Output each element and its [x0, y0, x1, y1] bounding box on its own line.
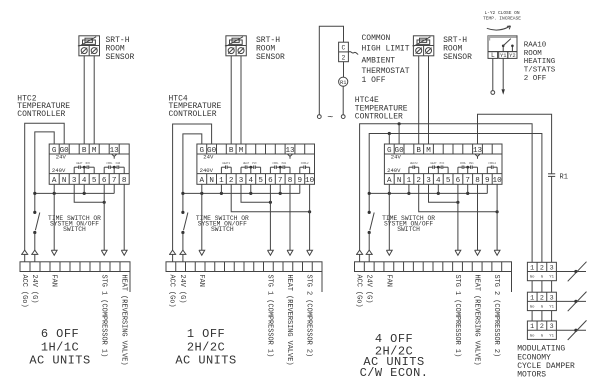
wire G0 to ACC terminal (HTC4) [173, 124, 212, 250]
svg-text:COMMON: COMMON [362, 34, 391, 43]
svg-text:STG 2 (COMPRESSOR 2): STG 2 (COMPRESSOR 2) [305, 275, 313, 358]
wire G0 to ACC terminal (HTC2) [25, 123, 64, 250]
label HTC4E controller [355, 96, 408, 121]
svg-text:COOL: COOL [106, 162, 113, 165]
strip label STG 2 S2 [305, 275, 313, 358]
svg-text:10: 10 [305, 177, 315, 185]
label ambient thermostat [362, 34, 410, 85]
svg-text:Y1: Y1 [549, 276, 554, 280]
room sensor U4 (SRT-H) [225, 36, 246, 56]
svg-text:M: M [92, 147, 97, 155]
svg-text:4: 4 [436, 177, 441, 185]
svg-text:AC UNITS: AC UNITS [175, 353, 236, 367]
wire terminal 8 to HEAT (HTC4) [289, 184, 291, 250]
svg-text:SRT-H: SRT-H [443, 36, 467, 45]
svg-text:COOL: COOL [272, 162, 279, 165]
svg-text:SENSOR: SENSOR [443, 53, 472, 62]
svg-text:2: 2 [229, 177, 234, 185]
svg-text:T/STATS: T/STATS [524, 66, 556, 74]
svg-text:C/W ECON.: C/W ECON. [360, 366, 429, 380]
relay contacts HEAT PVC (HTC4E) [429, 162, 449, 174]
wire terminal 8 to HEAT (HTC2) [123, 184, 125, 250]
svg-text:1 OFF: 1 OFF [362, 76, 386, 85]
svg-text:3: 3 [550, 294, 554, 302]
leader to thermostat text [348, 52, 358, 55]
svg-text:PVC: PVC [440, 162, 445, 165]
svg-text:3: 3 [550, 265, 554, 273]
wire R1 contact to damper motors terminal 3 [551, 176, 553, 262]
svg-text:Y2: Y2 [509, 53, 515, 59]
switch contact L-Y1 (RAA10) [502, 39, 514, 52]
svg-text:Y1: Y1 [549, 334, 554, 338]
wires damper motor 2 to next [532, 311, 552, 321]
relay contacts COOL PH1 (HTC4) [270, 162, 290, 174]
relay contacts COOL FAN (HTC2) [104, 162, 124, 174]
svg-text:A: A [52, 177, 57, 185]
svg-text:8: 8 [475, 177, 480, 185]
svg-text:24V: 24V [56, 153, 67, 160]
arrow into strip (ACC S2) [169, 250, 176, 262]
caption 1 OFF 2H/2C AC UNITS [175, 327, 236, 367]
svg-text:HEAT2: HEAT2 [410, 162, 418, 165]
svg-text:CONTROLLER: CONTROLLER [17, 110, 65, 119]
svg-text:5: 5 [258, 177, 263, 185]
svg-text:1: 1 [219, 177, 224, 185]
wire Y1 with arrow [502, 58, 505, 94]
wire Y-drop from terminal 13 (HTC4E) [475, 154, 480, 158]
caption 6 OFF 1H/1C AC UNITS [29, 327, 90, 367]
node 240V common rail (HTC4E) [368, 192, 488, 195]
label 24V (HTC4E) [391, 153, 402, 160]
svg-text:6 OFF: 6 OFF [41, 327, 79, 341]
node 240V common rail (HTC2) [33, 192, 114, 195]
svg-text:HEAT: HEAT [76, 162, 83, 165]
wire terminal 2 to terminal 10 column (HTC4E) [419, 184, 499, 213]
arrow to strip (STG1 S1) [101, 250, 107, 255]
node 240V common rail (HTC4) [181, 192, 300, 195]
wire terminal 8 to HEAT (HTC4E) [477, 184, 479, 250]
wire Y-drop from terminal 13 (HTC4) [288, 154, 293, 158]
strip label ACC (Go) S3 [355, 275, 363, 308]
room sensor U4E (SRT-H) [412, 36, 433, 56]
svg-text:6: 6 [456, 177, 461, 185]
arrow to strip (FAN S3) [386, 250, 392, 255]
wire terminal 2 to terminal 10 column (HTC4) [231, 184, 311, 213]
wire terminal 7 to rail (HTC4E) [467, 184, 469, 193]
svg-text:1: 1 [530, 294, 534, 302]
svg-text:24V: 24V [203, 153, 214, 160]
svg-text:A: A [387, 177, 392, 185]
wire G to time switch (HTC4) [183, 134, 202, 213]
strip label HEAT S3 [473, 275, 481, 366]
svg-text:M: M [426, 147, 431, 155]
label SRT-H room sensor 2 [256, 36, 285, 62]
svg-text:AC UNITS: AC UNITS [29, 353, 90, 367]
svg-text:FAN: FAN [384, 275, 392, 287]
strip label STG 2 S3 [492, 275, 500, 358]
label 24V (HTC2) [56, 153, 67, 160]
relay contacts COOL PH1 (HTC4E) [458, 162, 478, 174]
strip label 24V (G) S3 [364, 275, 372, 304]
svg-text:3: 3 [72, 177, 77, 185]
svg-text:Go: Go [530, 276, 535, 280]
svg-text:A: A [200, 177, 205, 185]
relay contact R1 [548, 173, 568, 181]
terminal Y1 (RAA10) [499, 52, 508, 60]
svg-text:Go: Go [530, 334, 535, 338]
svg-text:M: M [239, 147, 244, 155]
wire A to FAN (HTC4E) [388, 184, 390, 250]
wire terminal 4 to rail (HTC4) [250, 184, 252, 193]
wire R1 coil to link terminal [342, 86, 344, 114]
svg-text:13: 13 [110, 147, 120, 155]
svg-text:N: N [62, 177, 67, 185]
svg-text:CONTROLLER: CONTROLLER [355, 113, 403, 122]
svg-text:5: 5 [446, 177, 451, 185]
wire link terminal to C [319, 26, 343, 115]
svg-text:ACC (Go): ACC (Go) [355, 275, 363, 308]
svg-text:PH1: PH1 [469, 162, 474, 165]
svg-text:Y1: Y1 [500, 53, 506, 59]
svg-text:THERMOSTAT: THERMOSTAT [362, 67, 410, 76]
svg-text:HEAT: HEAT [430, 162, 437, 165]
svg-text:2: 2 [540, 323, 544, 331]
wire terminal 6 to STG1 (HTC4) [269, 184, 271, 250]
relay contact COOL2 (HTC4) [300, 162, 310, 174]
svg-text:1H/1C: 1H/1C [41, 341, 79, 355]
svg-text:R1: R1 [340, 80, 346, 86]
strip label HEAT S2 [285, 275, 293, 366]
svg-text:FAN: FAN [197, 275, 205, 287]
arrow to strip (FAN S2) [199, 250, 205, 255]
svg-text:2 OFF: 2 OFF [524, 75, 547, 83]
svg-text:STG 1 (COMPRESSOR 1): STG 1 (COMPRESSOR 1) [99, 275, 107, 358]
damper motor 1 [527, 262, 586, 282]
time switch contact (HTC4) [181, 211, 188, 234]
svg-text:SWITCH: SWITCH [397, 226, 420, 233]
svg-text:COOL2: COOL2 [301, 162, 309, 165]
label time switch (HTC4) [196, 215, 249, 233]
label 240V (HTC2) [52, 167, 66, 174]
terminal strip S1 [20, 262, 130, 292]
svg-text:24V: 24V [391, 153, 402, 160]
svg-text:HIGH LIMIT: HIGH LIMIT [362, 45, 410, 54]
caption 4 OFF 2H/2C AC UNITS C/W ECON. [360, 332, 429, 380]
relay contacts HEAT RVC (HTC2) [74, 162, 94, 174]
arrow to strip (HEAT S2) [287, 250, 293, 255]
link mark [327, 113, 333, 124]
strip label 24V (G) S1 [30, 275, 38, 304]
svg-text:SRT-H: SRT-H [256, 36, 280, 45]
svg-text:HEAT: HEAT [243, 162, 250, 165]
svg-text:2: 2 [540, 294, 544, 302]
wire G to time switch (HTC2) [35, 132, 54, 213]
svg-text:MOTORS: MOTORS [517, 371, 546, 380]
svg-text:240V: 240V [200, 167, 214, 174]
terminal block C-2 (ambient thermostat) [339, 42, 349, 62]
label time switch (HTC4E) [382, 215, 435, 233]
arrow to strip (STG2 S3) [494, 250, 500, 255]
arrow to strip (STG1 S2) [268, 250, 274, 255]
svg-text:7: 7 [465, 177, 470, 185]
svg-text:7: 7 [112, 177, 117, 185]
wire C2 block to R1 coil [343, 62, 345, 77]
svg-text:L: L [491, 52, 495, 59]
link terminal right [341, 115, 345, 119]
svg-text:ROOM: ROOM [524, 50, 543, 58]
svg-text:HEAT (REVERSING VALVE): HEAT (REVERSING VALVE) [119, 275, 127, 366]
arrow to strip (HEAT S3) [475, 250, 481, 255]
controller HTC4 terminal box [197, 144, 315, 185]
wire terminal 4 to rail (HTC2) [83, 184, 85, 193]
svg-text:10: 10 [493, 177, 503, 185]
time switch contact (HTC4E) [368, 211, 375, 234]
svg-text:FAN: FAN [49, 275, 57, 287]
arrow into strip (24V S2) [179, 250, 186, 262]
wires sensor U2 to terminals B,M [84, 56, 94, 144]
label 24V (HTC4) [203, 153, 214, 160]
wire terminal 3 to terminal 6 column (HTC4) [241, 184, 272, 204]
svg-text:RVC: RVC [86, 162, 91, 165]
controller HTC4E terminal box [384, 144, 502, 185]
wire A to FAN (HTC2) [53, 184, 55, 250]
svg-text:4: 4 [82, 177, 87, 185]
damper motor 3 [527, 320, 586, 340]
svg-text:3: 3 [239, 177, 244, 185]
svg-text:SRT-H: SRT-H [106, 36, 130, 45]
svg-text:HEATING: HEATING [524, 58, 556, 66]
svg-text:FAN: FAN [116, 162, 121, 165]
relay contact HEAT2 (HTC4E) [409, 162, 419, 174]
wire terminal 3 to terminal 6 column (HTC4E) [429, 184, 460, 204]
wire switch to 24V terminal (HTC2) [34, 233, 36, 251]
svg-text:1: 1 [530, 323, 534, 331]
svg-text:B: B [229, 147, 234, 155]
svg-text:9: 9 [298, 177, 303, 185]
label SRT-H room sensor 3 [443, 36, 472, 62]
wire terminal 1 to rail (HTC4E) [408, 184, 410, 193]
label SRT-H room sensor 1 [106, 36, 135, 62]
label 240V (HTC4E) [387, 167, 401, 174]
svg-text:5: 5 [92, 177, 97, 185]
relay contact COOL2 (HTC4E) [487, 162, 497, 174]
thermostat RAA10 body [488, 36, 517, 52]
svg-text:1: 1 [407, 177, 412, 185]
wires sensor U4 to terminals B,M [231, 56, 241, 144]
svg-text:1: 1 [530, 265, 534, 273]
wire terminal 7 to rail (HTC4) [279, 184, 281, 193]
strip label FAN S2 [197, 275, 205, 287]
strip label STG 1 S2 [266, 275, 274, 358]
svg-text:COOL2: COOL2 [488, 162, 496, 165]
svg-text:STG 1 (COMPRESSOR 1): STG 1 (COMPRESSOR 1) [266, 275, 274, 358]
arrow to strip (STG2 S2) [307, 250, 313, 255]
svg-text:24V (G): 24V (G) [178, 275, 186, 304]
svg-text:STG 2 (COMPRESSOR 2): STG 2 (COMPRESSOR 2) [492, 275, 500, 358]
svg-text:SWITCH: SWITCH [63, 226, 86, 233]
arrow to strip (FAN S1) [51, 250, 57, 255]
svg-text:CYCLE DAMPER: CYCLE DAMPER [517, 362, 575, 371]
svg-text:TEMP. INCREASE: TEMP. INCREASE [483, 16, 521, 22]
svg-text:HEAT (REVERSING VALVE): HEAT (REVERSING VALVE) [473, 275, 481, 366]
label RAA10 room heating t/stats [524, 42, 556, 83]
svg-text:B: B [416, 147, 421, 155]
strip label 24V (G) S2 [178, 275, 186, 304]
terminal L (RAA10) [488, 52, 498, 60]
controller HTC2 terminal box [49, 144, 129, 185]
wire G0 rail to damper motors terminal 1 [360, 122, 532, 262]
link terminal left [317, 115, 321, 119]
svg-text:R1: R1 [560, 173, 568, 181]
svg-text:4: 4 [249, 177, 254, 185]
damper motor 2 [527, 292, 586, 312]
svg-text:240V: 240V [387, 167, 401, 174]
terminal strip S2 [166, 262, 322, 292]
svg-text:2: 2 [540, 265, 544, 273]
strip label FAN S1 [49, 275, 57, 287]
wires damper motor 1 to next [532, 281, 552, 293]
svg-text:24V (G): 24V (G) [364, 275, 372, 304]
wires sensor U4E to terminals B,M [419, 56, 429, 144]
label modulating economy cycle damper motors [517, 345, 575, 380]
svg-text:240V: 240V [52, 167, 66, 174]
wire terminal 10 to STG2 (HTC4) [309, 184, 311, 250]
arrow to strip (STG1 S3) [455, 250, 461, 255]
svg-text:CONTROLLER: CONTROLLER [169, 110, 217, 119]
terminal Y2 (RAA10) [508, 52, 517, 60]
svg-text:7: 7 [278, 177, 283, 185]
svg-text:8: 8 [288, 177, 293, 185]
strip label ACC (Go) S2 [168, 275, 176, 308]
svg-text:Y1: Y1 [549, 306, 554, 310]
svg-text:6: 6 [102, 177, 107, 185]
wire A to FAN (HTC4) [201, 184, 203, 250]
svg-text:2: 2 [342, 54, 346, 61]
wire terminal 9 to rail (HTC4) [299, 184, 301, 193]
wire terminal 13 to R1 contact [478, 114, 552, 174]
svg-text:3: 3 [426, 177, 431, 185]
svg-text:8: 8 [122, 177, 127, 185]
arrow into strip (24V S1) [31, 250, 38, 262]
svg-text:SWITCH: SWITCH [211, 226, 234, 233]
strip label HEAT S1 [119, 275, 127, 366]
strip label STG 1 S3 [453, 275, 461, 358]
label HTC4 controller [169, 94, 222, 119]
svg-text:13: 13 [285, 147, 295, 155]
arc temp increase arrow [487, 26, 511, 30]
svg-text:STG 1 (COMPRESSOR 1): STG 1 (COMPRESSOR 1) [453, 275, 461, 358]
svg-text:SENSOR: SENSOR [256, 53, 285, 62]
svg-text:1 OFF: 1 OFF [187, 327, 225, 341]
strip label FAN S3 [384, 275, 392, 287]
wire terminal 4 to rail (HTC4E) [437, 184, 439, 193]
relay coil R1 [339, 77, 348, 86]
arrow to strip (HEAT S1) [121, 250, 127, 255]
svg-text:2H/2C: 2H/2C [187, 341, 225, 355]
strip label ACC (Go) S1 [20, 275, 28, 308]
svg-text:AMBIENT: AMBIENT [362, 56, 396, 65]
label time switch (HTC2) [48, 215, 101, 233]
wire terminal 6 to STG1 (HTC2) [103, 184, 105, 250]
svg-text:~: ~ [327, 113, 333, 124]
svg-text:ACC (Go): ACC (Go) [168, 275, 176, 308]
arrow into strip (ACC S1) [21, 250, 28, 262]
svg-text:PVC: PVC [252, 162, 257, 165]
svg-text:N: N [209, 177, 214, 185]
wire terminal 9 to rail (HTC4E) [486, 184, 488, 193]
terminal strip S3 [355, 262, 512, 292]
svg-text:24V (G): 24V (G) [30, 275, 38, 304]
relay contact HEAT2 (HTC4) [221, 162, 231, 174]
svg-text:ACC (Go): ACC (Go) [20, 275, 28, 308]
time switch contact (HTC2) [33, 211, 40, 234]
arrow into strip (24V S3) [366, 250, 373, 262]
svg-text:2: 2 [416, 177, 421, 185]
label 240V (HTC4) [200, 167, 214, 174]
svg-text:9: 9 [485, 177, 490, 185]
svg-text:B: B [82, 147, 87, 155]
wire terminal 10 to STG2 (HTC4E) [496, 184, 498, 250]
svg-text:HEAT (REVERSING VALVE): HEAT (REVERSING VALVE) [285, 275, 293, 366]
strip label STG 1 S1 [99, 275, 107, 358]
svg-text:PH1: PH1 [282, 162, 287, 165]
svg-text:3: 3 [550, 323, 554, 331]
wire switch to 24V terminal (HTC4) [182, 233, 184, 251]
wire switch to 24V terminal (HTC4E) [368, 233, 370, 251]
svg-text:HEAT2: HEAT2 [222, 162, 230, 165]
arrow into strip (ACC S3) [356, 250, 363, 262]
relay contacts HEAT PVC (HTC4) [241, 162, 261, 174]
wire terminal 1 to rail (HTC4) [220, 184, 222, 193]
svg-text:L-Y2 CLOSE ON: L-Y2 CLOSE ON [484, 10, 519, 16]
svg-text:COOL: COOL [460, 162, 467, 165]
wire Y-drop from terminal 13 (HTC2) [112, 154, 117, 158]
svg-text:Go: Go [530, 306, 535, 310]
wire G rail to damper motors terminal 2 [369, 132, 542, 262]
wire terminal 7 to rail (HTC2) [113, 184, 115, 193]
wire L to open terminal [491, 58, 495, 94]
svg-text:MODULATING: MODULATING [517, 345, 565, 354]
svg-text:C: C [342, 45, 346, 52]
svg-text:N: N [397, 177, 402, 185]
label L-Y2 close on temp increase [483, 10, 521, 22]
label HTC2 controller [17, 94, 70, 119]
svg-text:6: 6 [268, 177, 273, 185]
svg-text:13: 13 [473, 147, 483, 155]
wire terminal 6 to STG1 (HTC4E) [457, 184, 459, 250]
wire terminal 3 to terminal 6 column (HTC2) [74, 184, 106, 204]
svg-text:RAA10: RAA10 [524, 42, 547, 50]
room sensor U2 (SRT-H) [78, 36, 100, 56]
svg-text:SENSOR: SENSOR [106, 53, 135, 62]
